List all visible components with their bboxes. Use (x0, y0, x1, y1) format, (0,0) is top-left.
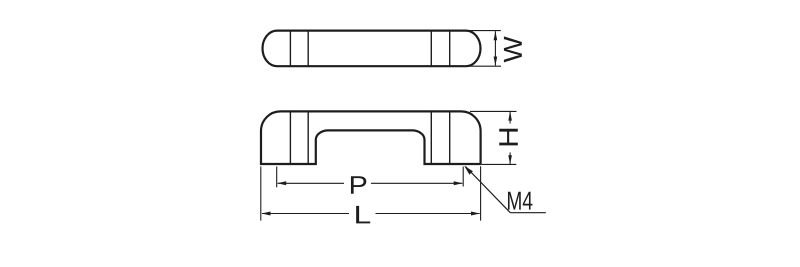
P extension line right (462, 167, 464, 187)
W arrow up (494, 31, 498, 40)
label P (351, 176, 366, 194)
label H (499, 129, 518, 146)
H arrow up with stem (509, 111, 511, 123)
H arrow down with stem (509, 153, 511, 165)
top view right end parting line 1 (430, 31, 432, 67)
label M4 (508, 192, 532, 210)
L arrow right (471, 212, 480, 216)
M4 leader line (466, 167, 511, 213)
W extension line bottom (469, 65, 501, 67)
top view left end parting line 2 (307, 31, 309, 67)
front view right end parting line 2 (449, 111, 451, 164)
H extension line top (470, 110, 517, 112)
L extension line right (480, 166, 482, 220)
M4 leader arrowhead (464, 166, 473, 175)
W extension line top (466, 30, 501, 32)
P dimension line left segment (278, 182, 344, 184)
label W (504, 36, 522, 62)
P arrow right (454, 181, 463, 185)
top view right end parting line 2 (449, 31, 451, 67)
W arrow down (494, 57, 498, 66)
P extension line left (276, 167, 278, 188)
P arrow left (277, 181, 286, 185)
W dimension line (494, 31, 496, 65)
front view left end parting line 2 (307, 111, 309, 164)
L dimension line right segment (376, 213, 480, 215)
front view left end parting line 1 (289, 111, 291, 164)
L extension line left (260, 167, 262, 221)
L dimension line left segment (262, 213, 349, 215)
front view right end parting line 1 (430, 111, 432, 164)
label L (356, 206, 370, 224)
H extension line bottom (482, 163, 516, 165)
M4 leader underline (510, 212, 546, 214)
front view outline (handle profile) (261, 111, 481, 164)
top view outline (capsule) (263, 31, 481, 67)
P dimension line right segment (371, 182, 462, 184)
L arrow left (262, 212, 271, 216)
top view left end parting line 1 (289, 31, 291, 67)
